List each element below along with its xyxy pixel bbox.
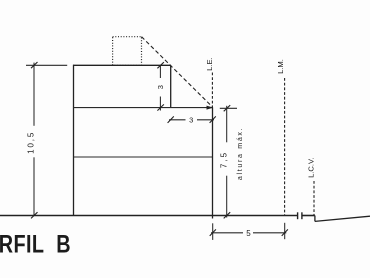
L.C.V. boundary dashed line <box>313 181 315 215</box>
dim 7,5 line lower segment <box>226 176 228 218</box>
dim 7,5 line upper segment <box>226 106 228 143</box>
ground line break bar 1 <box>297 212 299 219</box>
svg-text:3: 3 <box>189 116 193 125</box>
svg-text:L.M.: L.M. <box>276 59 285 74</box>
dim 10,5 bottom tick <box>31 212 38 218</box>
svg-text:10,5: 10,5 <box>26 131 35 154</box>
envelope diagonal dashed line <box>142 37 213 107</box>
dim 5 line right segment <box>253 232 286 234</box>
dim 5 extension line right <box>284 223 286 239</box>
dim 7,5 extension line top <box>220 107 237 109</box>
L.E. boundary dashed line <box>211 73 213 108</box>
svg-text:altura máx.: altura máx. <box>237 127 244 180</box>
svg-text:L.E.: L.E. <box>205 57 214 71</box>
floor line lower <box>74 156 213 158</box>
dim 10,5 line lower segment <box>33 157 35 215</box>
dim 3 vertical line upper segment <box>159 65 161 78</box>
dim 7,5 top tick <box>224 105 231 111</box>
dim 10,5 line upper segment <box>33 63 35 126</box>
building left wall <box>73 65 75 216</box>
dim 3 horizontal line right segment <box>197 119 214 121</box>
L.M. boundary dashed line <box>284 78 286 215</box>
building roof line <box>73 64 171 66</box>
dim 5 line left segment <box>211 232 243 234</box>
arrow tip at floor line right end <box>207 106 214 110</box>
dim 3 vertical bottom tick <box>157 104 164 110</box>
dim 7,5 bottom tick <box>224 212 231 218</box>
ground line left segment <box>0 215 298 217</box>
svg-text:3: 3 <box>156 85 165 89</box>
dim 3 horizontal left tick <box>168 116 174 123</box>
svg-text:5: 5 <box>246 229 251 238</box>
ground line break bar 2 <box>301 212 303 219</box>
rooftop volume dotted box <box>113 37 142 66</box>
dim 3 horizontal line left segment <box>169 119 186 121</box>
street slope line <box>315 216 370 221</box>
ground line right segment <box>302 215 315 217</box>
svg-text:7,5: 7,5 <box>219 151 228 168</box>
dim 10,5 top tick <box>31 62 38 68</box>
svg-text:RFIL B: RFIL B <box>0 230 71 258</box>
svg-text:L.C.V.: L.C.V. <box>307 157 316 177</box>
dim 5 left tick <box>210 229 216 236</box>
dim 10,5 extension line top <box>26 64 67 66</box>
dim 3 vertical line lower segment <box>159 97 161 111</box>
building right wall <box>212 108 214 219</box>
dim 3 horizontal right tick <box>210 116 216 123</box>
dim 5 extension line left <box>212 223 214 240</box>
dim 5 right tick <box>282 229 288 236</box>
dim 3 vertical top tick <box>157 62 164 68</box>
building setback wall <box>170 65 172 107</box>
floor line upper <box>74 107 214 109</box>
curb drop at street <box>314 216 316 222</box>
